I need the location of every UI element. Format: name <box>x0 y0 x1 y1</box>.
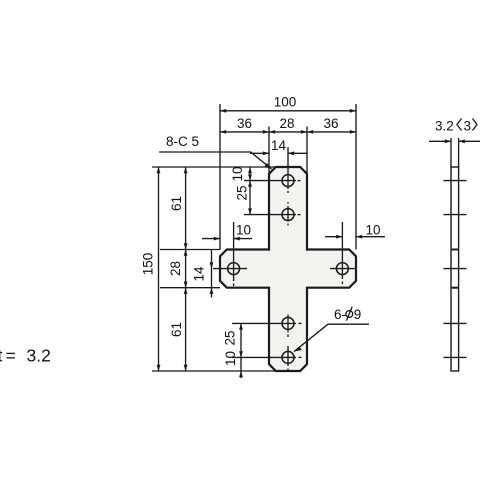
centerline bottom holes vertical <box>287 315 289 333</box>
centerline right hole vertical <box>341 222 343 279</box>
svg-text:3.2: 3.2 <box>435 119 454 134</box>
arrows dim 36-28-36 <box>220 130 226 134</box>
svg-text:10: 10 <box>223 351 238 366</box>
extension line arm left x=269 <box>268 127 270 174</box>
angle bracket left <box>457 119 462 131</box>
svg-text:28: 28 <box>279 116 294 131</box>
hole H2 <box>282 209 294 221</box>
svg-text:25: 25 <box>223 330 238 345</box>
centerline hole H1 horizontal <box>244 180 296 182</box>
centerline bottom hole B2 horizontal <box>232 356 296 358</box>
leader 6-phi9 <box>294 324 369 351</box>
extension line plate right x=356 <box>355 104 357 250</box>
svg-text:3: 3 <box>464 119 472 134</box>
centerline hole H2 horizontal <box>244 214 296 216</box>
plate outline (cross-shaped plate, 8 chamfered tips) <box>220 167 356 371</box>
angle bracket right <box>473 119 478 131</box>
svg-text:150: 150 <box>141 253 156 276</box>
arrow leader 8-C5 <box>265 163 272 169</box>
svg-text:25: 25 <box>235 185 250 200</box>
arrows dim 28 <box>184 250 188 256</box>
extension line plate left x=220 <box>219 104 221 250</box>
arrows dim 10 left arm <box>214 237 220 241</box>
hole B1 <box>282 317 294 329</box>
svg-text:36: 36 <box>237 116 252 131</box>
dim line 61-28-61 <box>185 167 187 371</box>
svg-text:t: t <box>0 346 3 366</box>
arrows dim 14 left arm <box>210 262 214 268</box>
dim line 25-10 bottom arm <box>240 323 242 378</box>
extension line bottom edge left <box>152 370 275 372</box>
extension line top edge left <box>152 166 275 168</box>
dim line 10-25 top arm <box>249 167 251 215</box>
side view <box>429 138 480 371</box>
svg-text:100: 100 <box>274 94 297 109</box>
dim line 10 left arm <box>202 238 220 240</box>
svg-text:6-: 6- <box>334 307 346 322</box>
arrows dim 14 top <box>263 151 269 155</box>
svg-text:14: 14 <box>192 266 207 282</box>
centerline right hole horizontal <box>330 268 355 270</box>
svg-text:=: = <box>6 346 16 366</box>
svg-text:28: 28 <box>168 261 183 276</box>
dim line 100 <box>220 110 356 112</box>
centerline bottom hole B1 horizontal <box>232 322 296 324</box>
svg-text:9: 9 <box>354 307 362 322</box>
svg-text:61: 61 <box>169 322 184 337</box>
dim line 14 top <box>250 152 269 154</box>
svg-text:10: 10 <box>365 223 380 238</box>
dim line 10 right arm <box>325 236 342 238</box>
hole B2 <box>282 351 294 363</box>
extension line arm right x=307 <box>306 127 308 174</box>
arrows dim 10 right arm <box>336 235 342 239</box>
svg-text:8-C 5: 8-C 5 <box>166 134 199 149</box>
centerline left hole horizontal <box>213 268 247 270</box>
side view bar <box>451 167 459 371</box>
side arm edges <box>452 250 458 288</box>
centerline top holes vertical <box>287 147 289 189</box>
extension line arm top edge left <box>160 249 220 251</box>
arrows dim 10 top arm <box>248 167 252 173</box>
svg-text:36: 36 <box>323 116 338 131</box>
hole right <box>336 263 348 275</box>
dim line 14 left arm <box>211 250 213 298</box>
side dim line 3.2 <box>429 140 451 142</box>
dim line 150 <box>158 167 160 371</box>
svg-text:14: 14 <box>271 138 287 153</box>
arrows dim 25 top arm <box>248 181 252 187</box>
svg-text:61: 61 <box>169 196 184 211</box>
centerline left hole vertical <box>233 222 235 281</box>
side ticks hole rows <box>444 181 467 358</box>
arrows dim 10 bottom arm <box>239 371 243 377</box>
svg-text:10: 10 <box>230 166 245 181</box>
dim line 36-28-36 <box>220 131 356 133</box>
arrows dim 25 bottom arm <box>239 323 243 329</box>
arrow leader 6-phi9 <box>294 347 302 352</box>
arrows dim 61 upper <box>184 167 188 173</box>
hole H1 <box>282 175 294 187</box>
extension line arm bottom edge left <box>160 287 220 289</box>
arrows dim 150 <box>157 167 161 173</box>
svg-text:10: 10 <box>236 223 251 238</box>
leader 8-C5 <box>159 152 272 169</box>
arrows side dim <box>445 139 451 143</box>
side extension lines <box>450 138 452 167</box>
svg-text:3.2: 3.2 <box>27 346 51 366</box>
arrows dim 100 <box>220 109 226 113</box>
hole left <box>228 263 240 275</box>
arrows dim 61 lower <box>184 288 188 294</box>
